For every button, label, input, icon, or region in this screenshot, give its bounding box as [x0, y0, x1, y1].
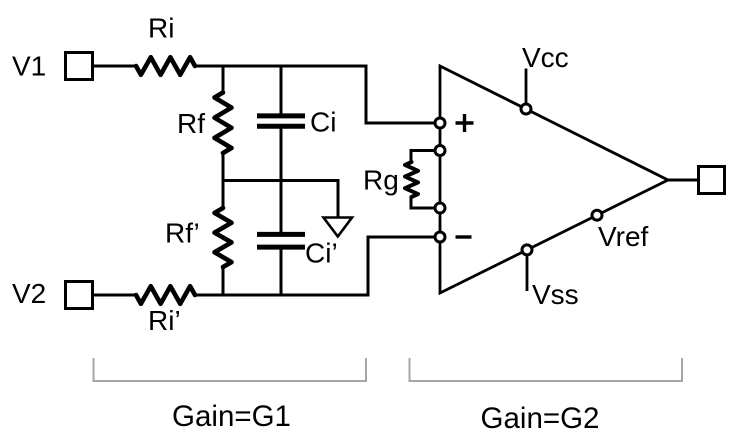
- resistor Rf: [215, 65, 232, 181]
- bracket Gain=G1: [94, 358, 367, 381]
- terminal output: [699, 167, 725, 194]
- wire top riser: [366, 65, 440, 124]
- pin inverting input: [435, 232, 445, 242]
- label minus sign: [456, 235, 472, 238]
- resistor Ri': [136, 286, 195, 304]
- pin Rg lower: [435, 203, 445, 213]
- resistor Rg: [405, 151, 436, 209]
- resistor Ri: [136, 57, 195, 75]
- bracket Gain=G2: [410, 358, 683, 381]
- svg-text:Ci’: Ci’: [305, 238, 338, 269]
- capacitor Ci: [257, 65, 305, 235]
- svg-text:Vref: Vref: [598, 221, 649, 252]
- svg-text:Gain=G1: Gain=G1: [172, 400, 291, 433]
- pin Vcc: [521, 104, 531, 114]
- svg-text:Ri: Ri: [148, 13, 174, 44]
- capacitor Ci': [257, 234, 305, 296]
- symbol open-triangle tap: [324, 218, 353, 237]
- wire bottom riser: [368, 237, 440, 297]
- wire V1 to Ri: [93, 65, 136, 68]
- wire bottom net (Ri' to riser): [195, 294, 368, 297]
- wire top net (Ri to riser): [195, 65, 366, 68]
- wire V2 to Ri': [93, 294, 136, 297]
- svg-text:V2: V2: [12, 278, 46, 309]
- svg-text:V1: V1: [12, 51, 46, 82]
- pin noninverting input: [435, 118, 445, 128]
- terminal V2: [66, 282, 93, 309]
- svg-text:Vss: Vss: [532, 279, 579, 310]
- svg-text:Rf: Rf: [177, 108, 205, 139]
- wire middle net: [222, 181, 339, 218]
- svg-text:Gain=G2: Gain=G2: [481, 402, 600, 435]
- pin Vref: [592, 210, 602, 220]
- svg-text:Rf’: Rf’: [165, 218, 200, 249]
- svg-text:Ri’: Ri’: [148, 305, 181, 336]
- pin Vss: [522, 245, 532, 255]
- svg-text:Rg: Rg: [363, 165, 399, 196]
- terminal V1: [66, 53, 93, 80]
- wire Vcc stub: [525, 69, 528, 106]
- wire Vss stub: [526, 254, 529, 291]
- pin Rg upper: [435, 146, 445, 156]
- resistor Rf': [215, 181, 232, 297]
- svg-text:Ci: Ci: [310, 107, 336, 138]
- label plus sign: [456, 114, 474, 132]
- svg-text:Vcc: Vcc: [522, 42, 569, 73]
- op-amp U1: [440, 66, 668, 293]
- wire output: [668, 179, 698, 182]
